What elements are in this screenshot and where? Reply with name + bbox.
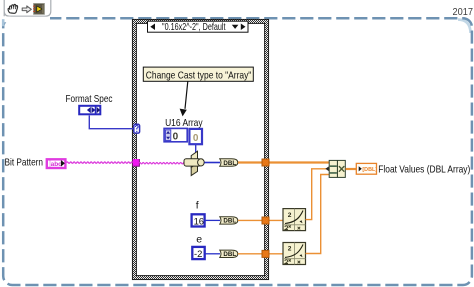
svg-text:2017: 2017 [453, 6, 474, 18]
wire Type Cast to DBL conversion [204, 162, 220, 164]
Bit Pattern string control [47, 159, 66, 168]
comment arrow to U16 Array [185, 81, 188, 109]
constant 16 [192, 214, 205, 226]
wire bottom power node to compound bottom input [306, 175, 330, 254]
DBL conversion bullet (main) [220, 159, 238, 167]
svg-text:0: 0 [173, 131, 179, 142]
wire 16 to DBL [205, 219, 220, 221]
svg-text:[DBL]: [DBL] [362, 167, 377, 173]
Type Cast node [184, 151, 204, 175]
svg-text:U16 Array: U16 Array [165, 117, 203, 129]
VI icon (LabVIEW logo) [33, 4, 44, 15]
wire Format Spec to selector terminal [89, 116, 134, 129]
DBL conversion bullet (f) [220, 217, 238, 225]
svg-text:Float Values (DBL Array): Float Values (DBL Array) [378, 164, 470, 176]
orange wire e to power node [238, 253, 283, 255]
string wire Bit Pattern to tunnel [67, 162, 133, 163]
constant -2 [192, 247, 204, 259]
svg-text:Format Spec: Format Spec [66, 93, 113, 105]
svg-text:0: 0 [193, 133, 199, 144]
svg-text:e: e [196, 234, 202, 246]
svg-text:DBL: DBL [223, 218, 236, 225]
main orange wire to compound node [238, 161, 329, 163]
tool hand icon [8, 4, 18, 13]
svg-text:f: f [196, 200, 199, 212]
input arrowhead at compound middle input [325, 166, 329, 171]
orange tunnel (e) [262, 250, 269, 257]
string tunnel on case border [133, 159, 140, 166]
svg-text:2: 2 [288, 246, 292, 253]
comment box: Change Cast type to "Array" [143, 67, 253, 82]
Power Of 2 node (top) [283, 209, 306, 231]
wire top power node to compound middle input [306, 169, 330, 220]
tool arrow icon [22, 6, 31, 13]
orange tunnel (f) [262, 217, 269, 224]
Power Of 2 node (bottom) [283, 243, 306, 265]
case selector label box [148, 21, 249, 33]
DBL conversion bullet (e) [220, 250, 238, 258]
svg-text:DBL: DBL [223, 160, 236, 167]
wire array constant to Type Cast type input [195, 144, 197, 154]
wire -2 to DBL [205, 253, 220, 255]
svg-text:DBL: DBL [223, 251, 236, 258]
output orange wire to indicator [346, 168, 357, 170]
svg-text:-2: -2 [194, 248, 202, 259]
case selector terminal ? [134, 124, 140, 133]
svg-text:Change Cast type to "Array": Change Cast type to "Array" [146, 70, 252, 82]
orange wire f to power node [238, 219, 283, 221]
case structure border (checkered) [132, 19, 269, 280]
U16 array constant: index box [164, 128, 187, 142]
svg-text:abc: abc [51, 161, 63, 168]
svg-text:2: 2 [288, 212, 292, 219]
compound arithmetic (multiply) node [329, 160, 345, 177]
orange tunnel (main) [262, 159, 269, 166]
Float Values indicator terminal [356, 163, 377, 174]
U16 array constant: element box [189, 129, 202, 144]
svg-text:16: 16 [194, 216, 204, 227]
svg-text:"0.16x2^-2", Default: "0.16x2^-2", Default [162, 21, 226, 33]
svg-text:Bit Pattern: Bit Pattern [5, 157, 44, 169]
string wire tunnel to Type Cast [139, 163, 185, 164]
toolbar tab [4, 0, 51, 16]
Format Spec ring constant [79, 106, 100, 115]
snippet frame corner tint top-right [458, 18, 472, 33]
